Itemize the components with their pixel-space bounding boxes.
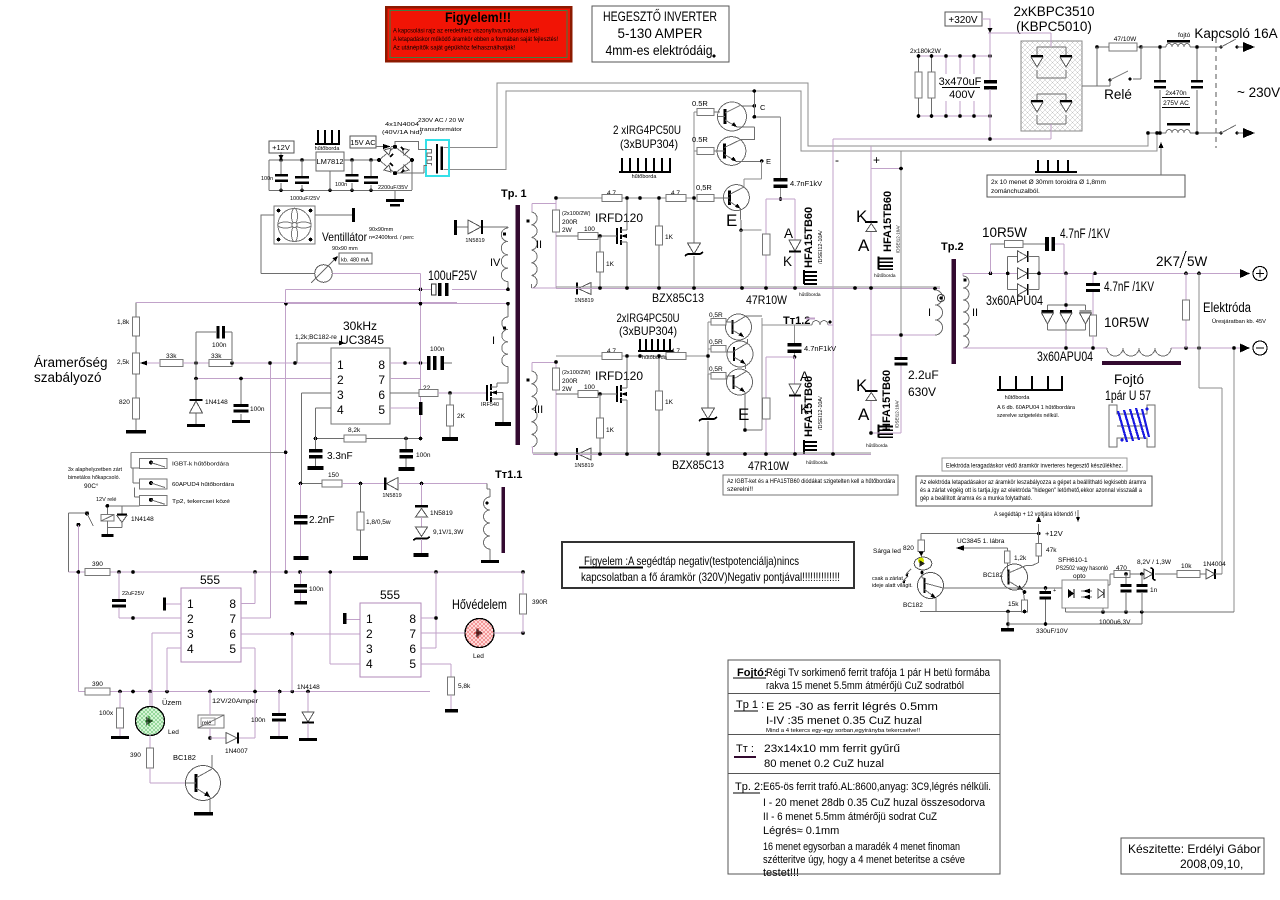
svg-text:Elektróda: Elektróda xyxy=(1203,300,1251,315)
svg-text:Üresjáratban kb. 45V: Üresjáratban kb. 45V xyxy=(1212,318,1266,325)
resistor 47k xyxy=(1036,534,1057,563)
resistor 33k a xyxy=(147,353,209,367)
resistor 0,5R (T5) xyxy=(709,339,726,352)
svg-text:4: 4 xyxy=(337,403,344,417)
svg-text:0.5R: 0.5R xyxy=(692,99,708,108)
svg-text:15k: 15k xyxy=(1008,601,1019,608)
svg-text:1N4004: 1N4004 xyxy=(1203,561,1226,568)
svg-text:Elektróda leragadáskor védő ár: Elektróda leragadáskor védő áramkör inve… xyxy=(946,463,1123,470)
note box letapadáskor xyxy=(916,476,1152,506)
transistor IGBT T6 xyxy=(726,369,762,432)
wire 555b pin8 pin6 xyxy=(421,572,436,648)
svg-text:II - 6 menet 5.5mm átmérőj: II - 6 menet 5.5mm átmérőjü sodrat CuZ xyxy=(763,811,937,823)
capacitor 1000u6,3V xyxy=(1099,574,1132,626)
svg-text:47k: 47k xyxy=(1046,547,1057,554)
transistor BC182 (aux1) xyxy=(903,573,1024,614)
bridge rectifier 4x1N4004 xyxy=(379,147,412,173)
svg-text:E: E xyxy=(726,211,737,230)
wire pin6 to gate xyxy=(390,392,419,394)
svg-text:200R: 200R xyxy=(562,219,578,226)
IC 555 second xyxy=(360,588,421,677)
resistor 0.5R (T1) xyxy=(692,99,720,116)
node +12V box xyxy=(269,141,294,160)
capacitor 330uF/10V xyxy=(1036,588,1068,635)
wire aux rails xyxy=(271,289,286,618)
wire 555a pin6 to 555b pin2 xyxy=(241,633,360,635)
svg-text:47R10W: 47R10W xyxy=(746,293,788,307)
svg-text:100uF25V: 100uF25V xyxy=(428,268,477,283)
diode 1N4148 (rail) xyxy=(297,684,320,741)
diode 1N5819 (clamp) xyxy=(415,484,453,528)
svg-text:1N4148: 1N4148 xyxy=(297,684,320,691)
wire gate bus A xyxy=(556,197,694,199)
svg-text:90x90mm: 90x90mm xyxy=(369,227,394,233)
capacitor 2.2uF 630V xyxy=(869,151,938,435)
resistor 22 xyxy=(419,385,487,397)
wire 555a pin8 xyxy=(241,572,255,604)
capacitor plate (555b pin1) xyxy=(343,613,346,624)
svg-text:80 menet 0.2 CuZ huzal: 80 menet 0.2 CuZ huzal xyxy=(764,758,884,770)
svg-text:(3xBUP304): (3xBUP304) xyxy=(620,137,678,151)
wire pin5 xyxy=(390,407,419,409)
svg-text:8,2k: 8,2k xyxy=(348,427,361,434)
ground (aux) xyxy=(1001,612,1014,632)
rail 555 top xyxy=(68,571,523,573)
wire gate chain bottom trio xyxy=(708,322,711,374)
rail mid (minus bus) xyxy=(556,286,940,288)
svg-text:3x60APU04: 3x60APU04 xyxy=(1037,349,1093,364)
resistor 100 (B) xyxy=(556,384,617,398)
wire pin7 vcc xyxy=(390,274,421,439)
wire collector bus top xyxy=(744,161,762,188)
svg-text:23x14x10 mm ferrit gyűrű: 23x14x10 mm ferrit gyűrű xyxy=(764,743,900,755)
LED Sárga led xyxy=(872,548,932,589)
capacitor 100n (12V) xyxy=(261,160,288,190)
transformer Tr1.2 xyxy=(783,315,833,327)
diode HFA15TB60 (A) xyxy=(783,207,824,269)
svg-text:hűtőborda: hűtőborda xyxy=(874,273,896,279)
svg-text:A: A xyxy=(858,405,870,424)
svg-text:2W: 2W xyxy=(562,227,573,234)
svg-text:3: 3 xyxy=(187,627,194,641)
svg-text:3x470uF: 3x470uF xyxy=(939,76,982,88)
svg-text:hűtőborda: hűtőborda xyxy=(1005,395,1031,401)
svg-text:33k: 33k xyxy=(211,353,222,360)
potentiometer 2,5k xyxy=(117,353,147,398)
svg-text:szerelni!!: szerelni!! xyxy=(727,486,753,493)
svg-text:1,8/0,5w: 1,8/0,5w xyxy=(366,519,391,526)
svg-text:testet!!!: testet!!! xyxy=(763,867,799,879)
svg-text:3: 3 xyxy=(337,388,344,402)
heatsink (IGBT top) xyxy=(619,158,671,180)
resistor 1,6/0,5w xyxy=(353,484,391,561)
svg-text:1: 1 xyxy=(366,612,373,626)
svg-text:3: 3 xyxy=(366,642,373,656)
diode 1N5819 (fb) xyxy=(359,478,487,500)
diode 1N4004 (aux) xyxy=(1203,561,1226,579)
svg-text:3x60APU04: 3x60APU04 xyxy=(986,293,1043,308)
svg-text:100n: 100n xyxy=(212,342,227,349)
diode 1N4148 (pot) xyxy=(187,379,228,428)
transformer Tp.1 core xyxy=(516,205,521,445)
svg-text:400V: 400V xyxy=(949,89,975,101)
resistor 47R10W (A) xyxy=(746,234,788,307)
svg-text:Tр.2: Tр.2 xyxy=(941,241,964,253)
resistor 0.5R (T2) xyxy=(692,135,720,155)
svg-text:I: I xyxy=(928,307,931,319)
resistor 2x180k2W xyxy=(910,48,942,116)
resistor 0,5R (T6) xyxy=(709,366,726,379)
svg-text:Relé: Relé xyxy=(1104,87,1132,102)
wire gate bus B xyxy=(556,355,708,357)
choke core U57 xyxy=(1109,405,1155,447)
svg-text:555: 555 xyxy=(380,588,400,602)
svg-text:Tp. 1: Tp. 1 xyxy=(501,188,527,200)
label 1,2k;BC182-re with arrow xyxy=(295,334,345,363)
svg-text:1: 1 xyxy=(337,358,344,372)
svg-text:A segédtáp + 12 voltjára köten: A segédtáp + 12 voltjára kötendő ! xyxy=(994,511,1076,518)
rail 555 bottom xyxy=(78,691,430,693)
svg-text:100n: 100n xyxy=(309,586,324,593)
svg-text:0,5R: 0,5R xyxy=(709,366,723,373)
svg-text:0,5R: 0,5R xyxy=(696,183,712,192)
svg-text:4.7nF1kV: 4.7nF1kV xyxy=(790,179,822,188)
note box IGBT szigetelten xyxy=(723,475,898,495)
svg-text:10R5W: 10R5W xyxy=(982,225,1027,240)
svg-text:200R: 200R xyxy=(562,378,578,385)
svg-text:22uF25V: 22uF25V xyxy=(122,591,145,597)
heatsink hűtőborda (psu) xyxy=(315,130,341,152)
wire 555b pin4 xyxy=(330,572,360,664)
svg-text:2K7: 2K7 xyxy=(1156,254,1180,269)
resistor 1,2k xyxy=(1005,551,1028,571)
wire gate chain top trio xyxy=(694,112,697,198)
zener BZX85C13 (B) xyxy=(672,356,724,472)
svg-text:gép a beállított áramra és a m: gép a beállított áramra és a munka folyt… xyxy=(920,495,1032,502)
bimetal switch 3 xyxy=(107,487,230,506)
resistor 0,5R (T4) xyxy=(709,312,726,325)
capacitor 4.7nF/1KV (top) xyxy=(1023,226,1110,273)
fan Ventillátor xyxy=(274,206,414,252)
svg-text:HFA15TB60: HFA15TB60 xyxy=(882,191,894,252)
resistor 1K (B gate) xyxy=(597,394,615,454)
svg-text:2200uF/35V: 2200uF/35V xyxy=(378,185,408,191)
resistor 47R10W (B) xyxy=(748,398,790,473)
resistor 5,6k xyxy=(445,677,471,713)
svg-text:E: E xyxy=(738,405,749,424)
svg-text:1000uF/25V: 1000uF/25V xyxy=(290,196,320,202)
svg-text:100n: 100n xyxy=(261,176,273,182)
inductor output choke xyxy=(1107,348,1171,356)
svg-text:1N4148: 1N4148 xyxy=(131,516,154,523)
wire 555b pin5 to 5,6k xyxy=(421,664,451,677)
svg-text:1pár U 57: 1pár U 57 xyxy=(1105,388,1151,403)
title box xyxy=(592,6,729,62)
svg-text:1,2k: 1,2k xyxy=(1014,555,1027,562)
svg-text:10R5W: 10R5W xyxy=(1104,315,1149,330)
resistor 100k xyxy=(99,692,129,740)
heatsink hűtőborda (bridge) xyxy=(1035,160,1077,182)
svg-text:fojtó: fojtó xyxy=(1178,32,1191,39)
svg-text:2W: 2W xyxy=(562,386,573,393)
svg-text:HEGESZTŐ INVERTER: HEGESZTŐ INVERTER xyxy=(603,9,717,24)
resistor 100 (A) xyxy=(556,226,617,240)
svg-text:4x1N4004: 4x1N4004 xyxy=(385,122,419,128)
svg-text:+12V: +12V xyxy=(272,143,290,152)
label UC3845 1. lábra xyxy=(956,538,1008,551)
bridge rectifier 2xKBPC3510 xyxy=(833,33,1097,141)
svg-text:1N4148: 1N4148 xyxy=(205,399,228,406)
svg-text:/DSEI12-10A/: /DSEI12-10A/ xyxy=(818,230,824,264)
svg-text:4: 4 xyxy=(187,642,194,656)
diode HFA15TB60 (B col top) xyxy=(856,191,901,255)
svg-text:8,2V / 1,3W: 8,2V / 1,3W xyxy=(1137,559,1172,566)
transistor IRFD120 (B) xyxy=(617,354,629,453)
IC 555 first xyxy=(181,573,241,662)
svg-text:E65-ös ferrit trafó.AL:8600,an: E65-ös ferrit trafó.AL:8600,anyag: 3C9,l… xyxy=(763,781,991,793)
diode 1N5819 (A rail) xyxy=(574,283,593,305)
svg-text:HFA15TB60: HFA15TB60 xyxy=(803,207,815,268)
svg-text:7: 7 xyxy=(378,373,385,387)
resistor 33k b xyxy=(194,353,332,367)
wire mains loop W1 xyxy=(444,83,1149,148)
resistor 1,8k xyxy=(117,303,140,353)
capacitor 4.7nF1kV (B snub) xyxy=(788,325,837,359)
resistor 390 (base) xyxy=(130,735,186,783)
svg-text:Tp. 2:: Tp. 2: xyxy=(735,781,763,793)
svg-text:III: III xyxy=(534,404,543,416)
relay relé (output) xyxy=(198,692,259,740)
wire snubber staple (B) xyxy=(766,357,795,454)
svg-text:30kHz: 30kHz xyxy=(343,319,377,333)
rail output minus xyxy=(963,347,1240,349)
ground (relay) xyxy=(106,528,108,534)
svg-text:8: 8 xyxy=(229,597,236,611)
svg-text:A: A xyxy=(858,236,870,255)
wire +320V hook xyxy=(982,19,990,29)
svg-text:/DSEI12-10A/: /DSEI12-10A/ xyxy=(896,225,901,253)
svg-text:A letapadáskor működő áramkör: A letapadáskor működő áramkör ebben a fo… xyxy=(393,37,558,43)
diode pack 3x60APU04 (bottom) xyxy=(1037,273,1093,364)
transistor IRF540 xyxy=(481,367,511,426)
svg-text:0,5R: 0,5R xyxy=(709,312,723,319)
winding III Tp.1 xyxy=(526,363,556,454)
diode HFA15TB60 (C) xyxy=(789,369,824,437)
svg-text:2,5k: 2,5k xyxy=(117,359,130,366)
wire pin8 xyxy=(390,362,427,364)
svg-text:csak a zárlat: csak a zárlat xyxy=(872,576,903,582)
capacitor 4.7nF/1KV (mid) xyxy=(1086,273,1154,315)
svg-text:E 25 -30 as ferrit légrés 0.: E 25 -30 as ferrit légrés 0.5mm xyxy=(766,701,938,713)
resistor 390 (bottom rail) xyxy=(85,681,110,695)
svg-text:(KBPC5010): (KBPC5010) xyxy=(1016,19,1092,34)
capacitor 2x470n second xyxy=(1191,45,1203,135)
svg-text:Mind a 4 tekercs egy-egy sorba: Mind a 4 tekercs egy-egy sorban,egyirány… xyxy=(766,728,920,734)
relay contact Relé xyxy=(1097,47,1141,102)
diode 1N5819 (B rail) xyxy=(574,448,593,469)
svg-text:390: 390 xyxy=(130,752,141,759)
capacitor 2200uF/35V xyxy=(364,160,408,191)
svg-text:330uF/10V: 330uF/10V xyxy=(1036,628,1068,635)
svg-text:Üzem: Üzem xyxy=(162,698,182,707)
svg-text:BC182: BC182 xyxy=(983,572,1003,579)
svg-text:5,8k: 5,8k xyxy=(458,683,471,690)
winding I Tp.2 xyxy=(928,287,945,335)
svg-text:Led: Led xyxy=(168,729,179,736)
svg-text:820: 820 xyxy=(903,545,914,552)
svg-text:és a zárlat végéig ott is tart: és a zárlat végéig ott is tartja,így az … xyxy=(920,487,1142,494)
transistor IGBT T2 xyxy=(717,137,771,166)
svg-text:hűtőborda: hűtőborda xyxy=(806,460,828,466)
svg-text:100n: 100n xyxy=(430,346,445,353)
svg-text:1000u6,3V: 1000u6,3V xyxy=(1099,619,1131,626)
svg-text:E: E xyxy=(766,157,771,166)
svg-text:1N5819: 1N5819 xyxy=(574,463,593,469)
svg-text:6: 6 xyxy=(229,627,236,641)
svg-text:2xKBPC3510: 2xKBPC3510 xyxy=(1013,4,1094,19)
svg-text:hűtőborda: hűtőborda xyxy=(799,292,821,298)
svg-text:6: 6 xyxy=(409,642,416,656)
rail aux mid xyxy=(1066,611,1234,613)
resistor 47/10W xyxy=(1095,36,1143,51)
capacitor 100n (pin8) xyxy=(427,346,452,370)
svg-text:2x470n: 2x470n xyxy=(1165,90,1187,97)
wire 555a pin5 xyxy=(241,648,255,692)
svg-text:Légrés≈ 0.1mm: Légrés≈ 0.1mm xyxy=(763,825,839,837)
svg-text:Az elektróda letapadásakor az: Az elektróda letapadásakor az áramkör le… xyxy=(920,479,1146,486)
rail aux lower xyxy=(1008,612,1142,624)
heatsink (HFA C) xyxy=(804,440,828,466)
info table box xyxy=(728,660,1000,879)
svg-text:Tp 1 :: Tp 1 : xyxy=(736,699,764,711)
capacitor 100n (ref) xyxy=(399,437,431,471)
svg-text:12V/20Amper: 12V/20Amper xyxy=(212,698,259,705)
svg-text:A: A xyxy=(784,226,793,241)
svg-text:230V AC / 20 W: 230V AC / 20 W xyxy=(418,118,465,124)
svg-text:I: I xyxy=(492,335,495,347)
svg-text:IV: IV xyxy=(490,257,501,269)
svg-text:n=2400ford. / perc: n=2400ford. / perc xyxy=(369,235,414,241)
svg-text:2K: 2K xyxy=(457,413,466,420)
svg-text:2: 2 xyxy=(366,627,373,641)
heatsink (HFA D) xyxy=(866,425,893,450)
svg-text:(2x100/2W): (2x100/2W) xyxy=(562,370,591,376)
heatsink (HFA B) xyxy=(874,257,896,280)
wire to aux negative sense xyxy=(1233,348,1235,612)
svg-text:5: 5 xyxy=(409,657,416,671)
resistor 1K (A gate) xyxy=(597,236,615,288)
switch Kapcsoló top xyxy=(1212,39,1255,52)
svg-text:555: 555 xyxy=(200,573,220,587)
wire snubber staple (A) xyxy=(766,199,795,288)
wire 555a pin4 xyxy=(167,648,181,692)
terminal minus xyxy=(1240,344,1250,353)
svg-text:+: + xyxy=(1053,588,1056,594)
svg-text:+320V: +320V xyxy=(948,15,978,26)
wire fan terminal xyxy=(315,214,352,216)
svg-text:100: 100 xyxy=(584,226,595,233)
svg-text:rakva 15 menet 5.5mm átmérő: rakva 15 menet 5.5mm átmérőjü CuZ sodrat… xyxy=(766,680,964,692)
svg-text:100n: 100n xyxy=(251,717,266,724)
svg-text:hűtőborda: hűtőborda xyxy=(632,174,658,180)
dashed separator xyxy=(1215,38,1217,148)
svg-text:90x90 mm: 90x90 mm xyxy=(332,246,358,252)
svg-text:100n: 100n xyxy=(335,182,347,188)
svg-text:/DSEI12-10A/: /DSEI12-10A/ xyxy=(895,400,900,428)
svg-text:IGBT-k hűtőbordára: IGBT-k hűtőbordára xyxy=(172,462,230,468)
svg-text:Tт1.2: Tт1.2 xyxy=(783,315,810,327)
transformer 230/15V xyxy=(377,140,449,190)
svg-text:1n: 1n xyxy=(1150,587,1158,594)
svg-text:2x 10 menet Ø 30mm toroidra Ø: 2x 10 menet Ø 30mm toroidra Ø 1,8mm xyxy=(991,179,1106,186)
svg-text:Figyelem!!!: Figyelem!!! xyxy=(445,10,511,25)
svg-text:3.3nF: 3.3nF xyxy=(327,451,353,462)
svg-text:100x: 100x xyxy=(99,710,114,717)
wire feedback line xyxy=(301,483,323,485)
svg-text:390: 390 xyxy=(92,561,103,568)
svg-text:6: 6 xyxy=(378,388,385,402)
svg-text:5-130 AMPER: 5-130 AMPER xyxy=(618,26,703,41)
regulator LM7812 xyxy=(316,152,344,171)
LED Üzem xyxy=(136,692,180,737)
resistor 1K (A drain) xyxy=(656,196,674,288)
svg-text:9,1V/1,3W: 9,1V/1,3W xyxy=(433,529,464,536)
svg-text:4.7nF /1KV: 4.7nF /1KV xyxy=(1104,279,1154,294)
capacitor 100n (between rails) xyxy=(294,572,324,605)
svg-text:7: 7 xyxy=(409,627,416,641)
transistor IGBT T5 xyxy=(726,339,753,369)
wire mains loop W2 xyxy=(444,91,1158,170)
transistor IGBT T4 xyxy=(726,314,763,340)
svg-text:BC182: BC182 xyxy=(173,753,196,762)
diode 1N5819 (aux winding) xyxy=(457,220,508,244)
resistor 10k xyxy=(1177,563,1206,578)
transistor IGBT T3 xyxy=(722,185,749,231)
svg-text:0.5R: 0.5R xyxy=(692,135,708,144)
inductor fojtó top xyxy=(1141,32,1212,47)
svg-text:15V AC: 15V AC xyxy=(350,138,376,147)
svg-text:5: 5 xyxy=(229,642,236,656)
svg-text:(2x100/2W): (2x100/2W) xyxy=(562,211,591,217)
svg-text:2xIRG4PC50U: 2xIRG4PC50U xyxy=(617,311,680,325)
svg-text:390R: 390R xyxy=(532,599,548,606)
svg-text:C: C xyxy=(760,103,766,112)
svg-text:I - 20 menet 28db 0.35 C: I - 20 menet 28db 0.35 CuZ huzal összeso… xyxy=(763,797,986,809)
svg-text:zománchuzalból.: zománchuzalból. xyxy=(991,188,1040,195)
IC UC3845 xyxy=(331,319,390,424)
svg-text:hűtőborda: hűtőborda xyxy=(642,355,668,361)
heatsink 60APU04 xyxy=(997,376,1076,419)
svg-text:47R10W: 47R10W xyxy=(748,459,790,473)
svg-text:(3xBUP304): (3xBUP304) xyxy=(619,324,677,338)
rail bottom common xyxy=(131,451,285,453)
svg-text:2.2uF: 2.2uF xyxy=(908,368,939,382)
svg-text:Kapcsoló 16A: Kapcsoló 16A xyxy=(1194,26,1277,41)
resistor 1K (B drain) xyxy=(656,354,674,453)
svg-text:7: 7 xyxy=(229,612,236,626)
svg-text:8: 8 xyxy=(409,612,416,626)
svg-text:150: 150 xyxy=(328,472,339,479)
svg-text:4.7nF /1KV: 4.7nF /1KV xyxy=(1060,226,1110,241)
capacitor 100n (comp) xyxy=(196,326,232,363)
svg-text:Régi Tv sorkimenő ferrit trafó: Régi Tv sorkimenő ferrit trafója 1 pár H… xyxy=(766,667,991,679)
signature box Készitette xyxy=(1121,838,1264,874)
heatsink (HFA A) xyxy=(799,270,821,298)
capacitor 100n (15V) xyxy=(335,160,359,190)
svg-text:II: II xyxy=(972,307,978,319)
wire 12V rail xyxy=(269,160,412,190)
svg-text:0,5R: 0,5R xyxy=(709,339,723,346)
